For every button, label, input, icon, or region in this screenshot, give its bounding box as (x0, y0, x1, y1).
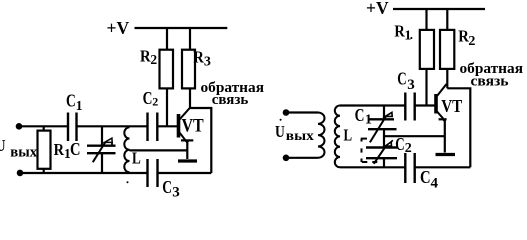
svg-text:1: 1 (365, 113, 372, 128)
svg-text:2: 2 (152, 95, 158, 109)
svg-text:3: 3 (204, 55, 211, 70)
svg-text:L: L (132, 148, 141, 167)
svg-text:C: C (397, 69, 406, 89)
svg-text:C: C (420, 167, 431, 187)
svg-text:2: 2 (468, 34, 475, 49)
svg-text:.: . (410, 27, 413, 42)
svg-text:2: 2 (405, 141, 412, 156)
svg-text:+V: +V (366, 0, 389, 18)
svg-text:C: C (395, 134, 404, 154)
svg-text:+V: +V (107, 18, 130, 38)
svg-text:R: R (54, 140, 65, 159)
svg-text:C: C (66, 91, 76, 111)
svg-text:связь: связь (471, 74, 509, 90)
svg-text:2: 2 (150, 52, 157, 67)
svg-text:C: C (143, 88, 153, 108)
svg-text:вых: вых (10, 144, 37, 160)
svg-text:VT: VT (441, 96, 462, 116)
svg-text:U: U (275, 122, 285, 141)
svg-text:вых: вых (286, 129, 314, 144)
svg-text:VT: VT (182, 116, 204, 137)
svg-text:связь: связь (212, 92, 249, 108)
svg-text:R: R (193, 48, 204, 67)
svg-text:C: C (70, 139, 81, 159)
svg-text:C: C (355, 105, 365, 125)
svg-text:C: C (162, 177, 172, 197)
svg-text:3: 3 (407, 77, 415, 93)
svg-text:1: 1 (76, 98, 83, 113)
svg-text:4: 4 (431, 176, 439, 192)
svg-text:3: 3 (172, 185, 180, 201)
svg-text:L: L (344, 126, 353, 145)
svg-text:U: U (0, 136, 6, 155)
